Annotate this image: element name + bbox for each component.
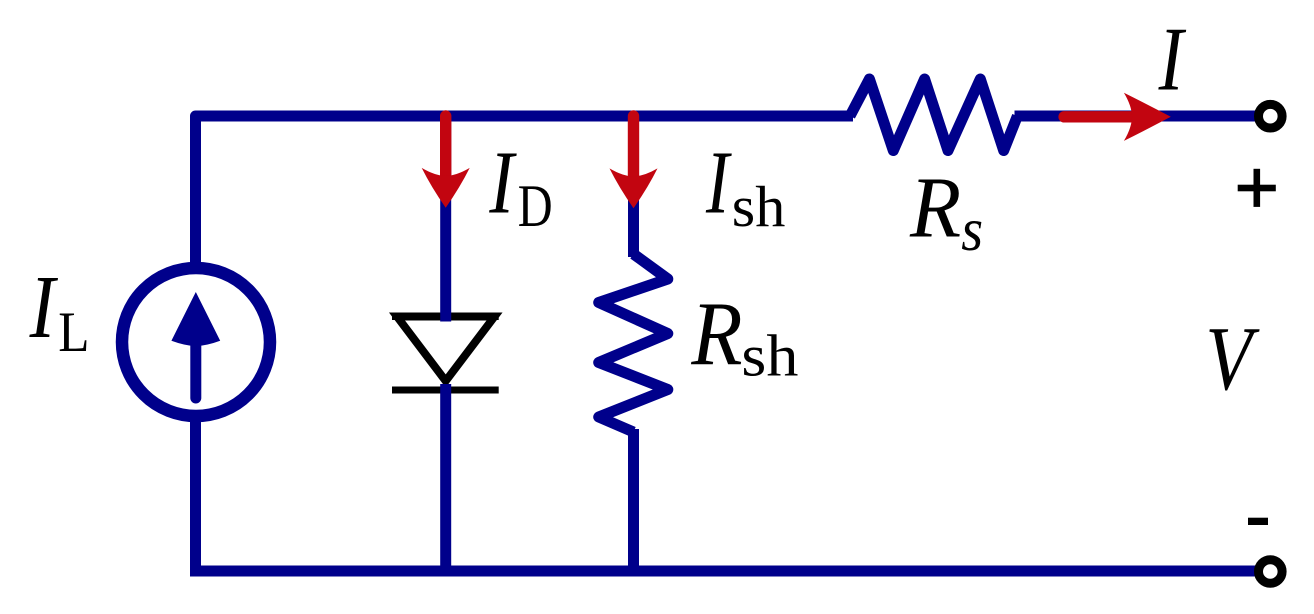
current arrow I_D shaft [440,116,451,178]
wire: top rail right [1015,111,1258,122]
wire: diode branch upper [440,116,451,322]
current arrow I_D head [422,168,470,208]
svg-text:I: I [1158,8,1187,109]
svg-text:I: I [705,133,732,233]
svg-text:s: s [961,196,983,264]
svg-text:D: D [518,172,553,239]
current source arrow head [171,292,220,346]
current source I_L circle [122,268,270,416]
svg-text:L: L [58,299,89,363]
svg-text:V: V [1205,309,1260,410]
output current arrow I shaft [1064,111,1140,122]
diode D1 anode bar [392,313,499,320]
resistor R_sh [599,254,668,432]
label + [1238,185,1276,192]
svg-text:sh: sh [741,324,798,389]
current arrow I_sh head [610,168,658,208]
diode D1 triangle [397,317,495,382]
resistor R_s [850,79,1017,151]
current source arrow shaft [190,344,201,398]
svg-text:I: I [489,132,518,232]
wire: bottom rail [190,566,1256,577]
diode D1 cathode bar [392,387,499,394]
wire: diode branch lower [440,384,451,571]
terminal + (positive output node) [1259,104,1283,128]
svg-text:R: R [909,159,961,256]
terminal - (negative output node) [1259,560,1283,584]
svg-text:sh: sh [732,174,786,239]
svg-text:I: I [29,258,58,357]
wire: shunt branch upper [628,116,639,257]
current arrow I_sh shaft [628,116,639,179]
wire: shunt branch lower [628,429,639,571]
wire: top rail left [196,116,854,264]
label - [1248,518,1268,525]
svg-text:R: R [690,283,742,384]
output current arrow I head [1124,93,1171,141]
wire: left vertical bottom [190,420,201,571]
